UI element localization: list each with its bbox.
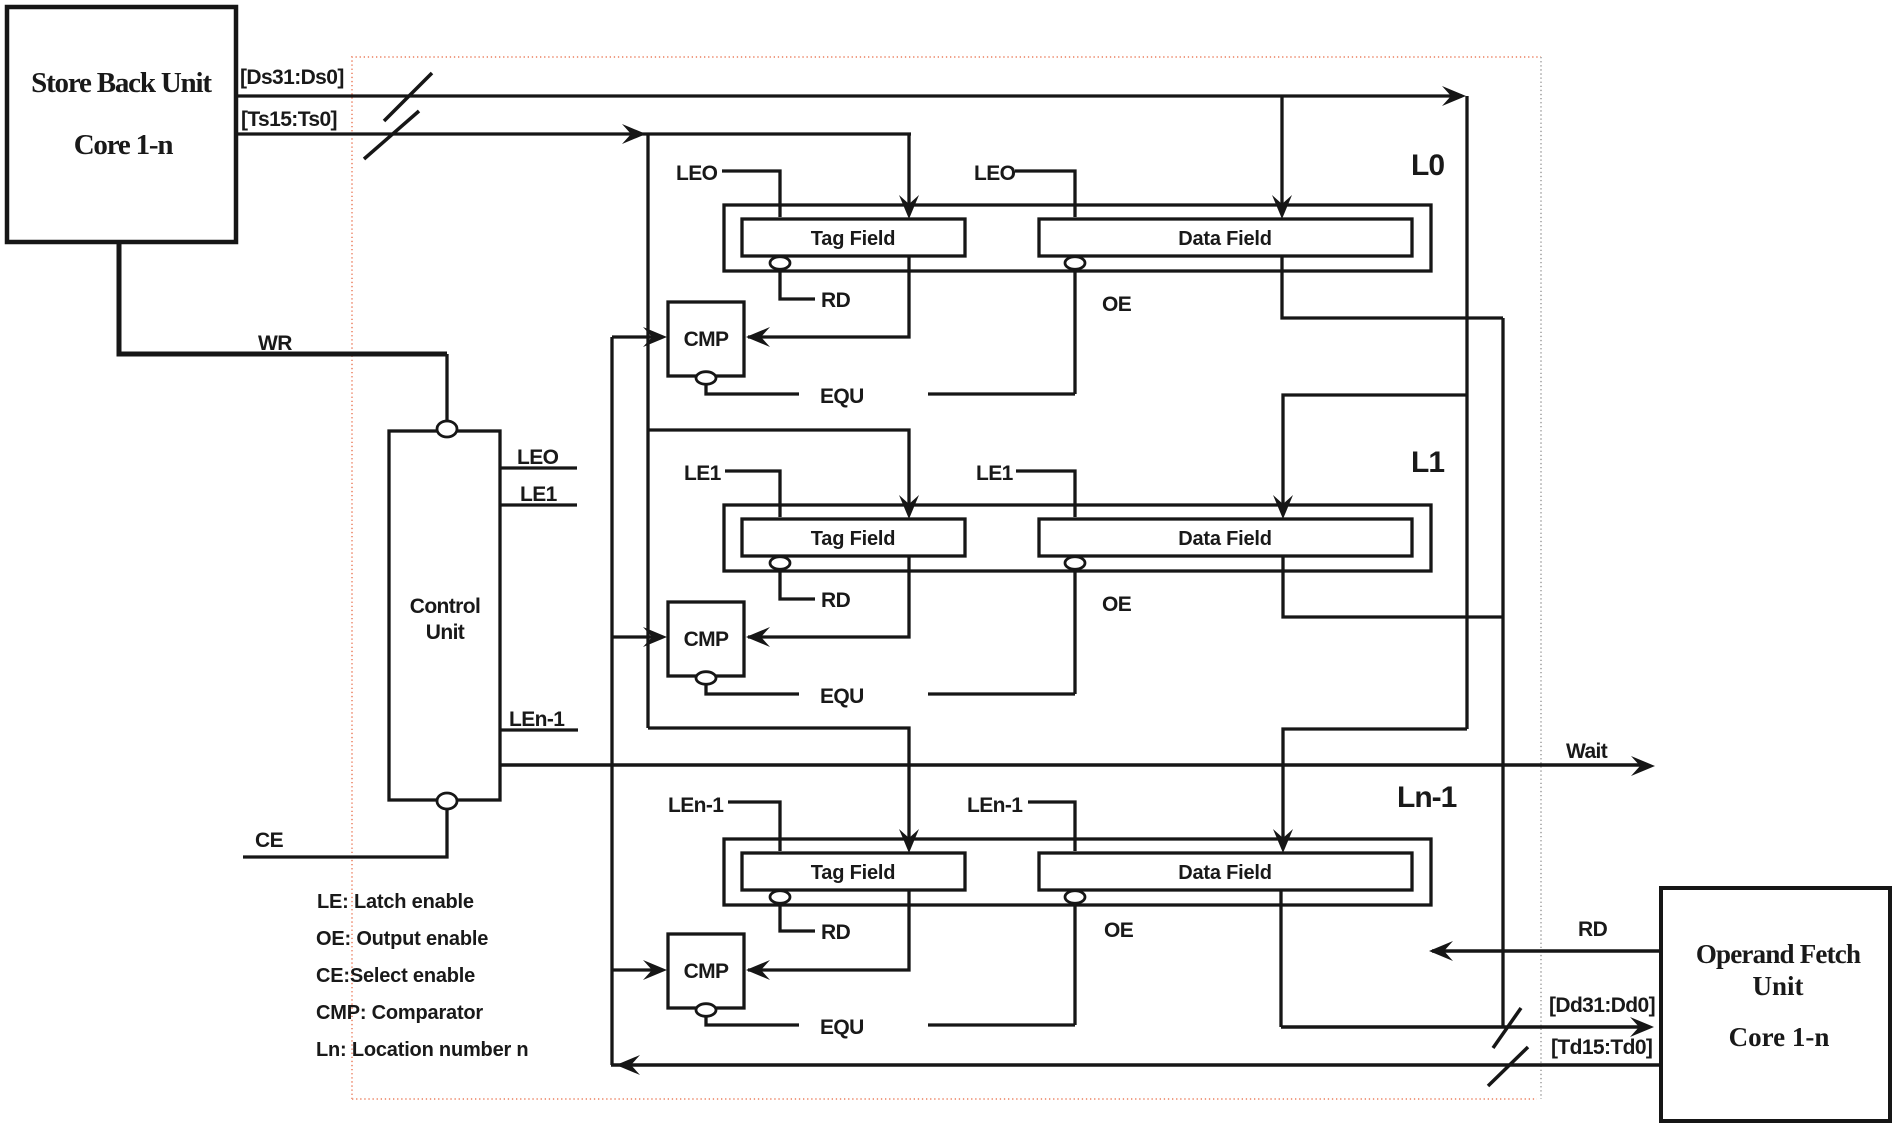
- arrowhead Dd into Operand Fetch Unit: [1630, 1017, 1654, 1037]
- svg-text:LEO: LEO: [676, 162, 718, 185]
- svg-text:RD: RD: [821, 289, 851, 312]
- svg-text:CMP: Comparator: CMP: Comparator: [316, 1002, 483, 1024]
- svg-text:Wait: Wait: [1566, 740, 1608, 763]
- L0 outer latch box: [724, 205, 1431, 271]
- comparator CMP L0: [668, 302, 744, 376]
- wire tag write drop into L0: [907, 134, 910, 212]
- Store Back Unit box: [7, 7, 236, 242]
- wire WR drop to Control Unit: [445, 354, 448, 421]
- wire LEO into Tag Field L0: [722, 171, 780, 217]
- arrowhead Wait: [1631, 756, 1655, 776]
- svg-text:LE1: LE1: [520, 483, 558, 506]
- Operand Fetch Unit box: [1661, 888, 1890, 1121]
- wire stored tag to CMP L1: [748, 556, 909, 637]
- bubble OE under Data Field L1: [1065, 557, 1085, 570]
- svg-text:Ln-1: Ln-1: [1397, 781, 1457, 814]
- svg-text:CMP: CMP: [684, 960, 729, 983]
- svg-text:Tag Field: Tag Field: [811, 228, 896, 250]
- svg-text:Tag Field: Tag Field: [811, 862, 896, 884]
- wire LEn-1 into Data Field Ln-1: [1028, 802, 1075, 851]
- Ln-1 outer latch box: [724, 839, 1431, 905]
- svg-text:[Td15:Td0]: [Td15:Td0]: [1551, 1036, 1652, 1059]
- wire LEO into Data Field L0: [1015, 171, 1075, 217]
- wire data read out of L0 to read rail: [1282, 256, 1503, 318]
- wire CE input: [243, 809, 447, 857]
- svg-text:Unit: Unit: [426, 621, 465, 644]
- arrowhead Td (left, at rail): [616, 1055, 640, 1075]
- wire EQU Ln-1 (left segment): [706, 1017, 799, 1025]
- bus slash on Td: [1488, 1047, 1528, 1086]
- dashed region border (gray dotted, right edge): [1540, 57, 1542, 1099]
- arrowhead tag write L0: [899, 195, 919, 219]
- wire data write drop into L0: [1280, 96, 1283, 212]
- wire WR from Store Back Unit: [119, 242, 447, 354]
- svg-text:OE: Output enable: OE: Output enable: [316, 928, 488, 950]
- svg-text:Ln: Location number n: Ln: Location number n: [316, 1039, 528, 1061]
- Data Field L1 box: [1039, 519, 1412, 556]
- wire data-read rail (to Dd bus): [1501, 318, 1504, 1027]
- Data Field L0 box: [1039, 219, 1412, 256]
- svg-text:Core 1-n: Core 1-n: [1729, 1022, 1830, 1052]
- wire stored tag to CMP Ln-1: [748, 890, 909, 970]
- arrowhead data write L1: [1273, 495, 1293, 519]
- arrowhead compare tag into CMP L1: [643, 627, 667, 647]
- svg-text:RD: RD: [1578, 918, 1608, 941]
- Data Field Ln-1 box: [1039, 853, 1412, 890]
- bubble EQU output CMP L1: [696, 672, 716, 685]
- svg-text:[Ts15:Ts0]: [Ts15:Ts0]: [241, 108, 337, 131]
- wire compare tag into CMP L1: [612, 635, 660, 638]
- svg-text:LEn-1: LEn-1: [967, 794, 1023, 817]
- comparator CMP L1: [668, 602, 744, 676]
- svg-text:LE: Latch enable: LE: Latch enable: [317, 891, 474, 913]
- Tag Field L0 box: [742, 219, 965, 256]
- svg-text:Control: Control: [410, 595, 480, 618]
- wire [Dd31:Dd0] line: [1281, 1025, 1642, 1029]
- inverter bubble bottom of Control Unit: [437, 793, 457, 809]
- wire data read out of Ln-1 to Dd: [1279, 890, 1282, 1027]
- bubble OE under Data Field L0: [1065, 257, 1085, 270]
- wire RD stub Ln-1: [780, 904, 815, 931]
- Tag Field L1 box: [742, 519, 965, 556]
- wire LEn-1 output stub: [500, 728, 578, 731]
- arrowhead data write Ln-1: [1273, 829, 1293, 853]
- wire LEO output stub: [500, 466, 577, 469]
- svg-text:EQU: EQU: [820, 385, 864, 408]
- arrowhead Ts into tag rail: [622, 124, 646, 144]
- arrowhead tag write L1: [899, 495, 919, 519]
- wire EQU Ln-1 (right segment to OE): [928, 1023, 1075, 1026]
- Tag Field Ln-1 box: [742, 853, 965, 890]
- svg-text:WR: WR: [258, 332, 292, 355]
- wire compare tag into CMP Ln-1: [612, 968, 660, 971]
- svg-text:CE:Select enable: CE:Select enable: [316, 965, 475, 987]
- wire tag-write rail (from Ts bus down): [646, 134, 649, 728]
- wire EQU L0 (left segment): [706, 385, 799, 394]
- bubble OE under Data Field Ln-1: [1065, 891, 1085, 904]
- bus slash on Ts: [364, 111, 419, 159]
- svg-text:CMP: CMP: [684, 328, 729, 351]
- svg-text:LE1: LE1: [976, 462, 1014, 485]
- svg-text:Store Back Unit: Store Back Unit: [31, 67, 212, 99]
- wire compare tag into CMP L0: [612, 335, 660, 338]
- wire LE1 output stub: [500, 503, 577, 506]
- wire LE1 into Data Field L1: [1016, 471, 1075, 517]
- svg-text:OE: OE: [1102, 293, 1132, 316]
- svg-text:Data Field: Data Field: [1178, 228, 1272, 250]
- wire LE1 into Tag Field L1: [725, 471, 780, 517]
- wire tag-compare rail (from Td bus up to CMP inputs): [610, 337, 613, 1065]
- wire [Td15:Td0] line: [611, 1063, 1663, 1067]
- dashed region border (salmon dotted, left/top/bottom): [352, 57, 1541, 1099]
- arrowhead compare tag into CMP Ln-1: [643, 960, 667, 980]
- L1 outer latch box: [724, 505, 1431, 571]
- svg-text:RD: RD: [821, 589, 851, 612]
- wire OE down to EQU L1: [1073, 570, 1076, 694]
- bus slash on Ds: [384, 73, 432, 121]
- Control Unit box: [389, 431, 500, 800]
- wire RD stub L0: [780, 270, 815, 299]
- arrowhead tag write Ln-1: [899, 829, 919, 853]
- wire tag write branch for Ln-1: [648, 728, 909, 846]
- svg-text:LEn-1: LEn-1: [509, 708, 565, 731]
- svg-text:LEO: LEO: [517, 446, 559, 469]
- svg-text:LEn-1: LEn-1: [668, 794, 724, 817]
- inverter bubble top of Control Unit: [437, 421, 457, 437]
- bubble RD under Tag Field L0: [770, 257, 790, 270]
- wire LEn-1 into Tag Field Ln-1: [728, 802, 780, 851]
- wire EQU L1 (left segment): [706, 685, 799, 694]
- arrowhead Ds into right rail: [1442, 86, 1466, 106]
- wire tag write branch for L1: [648, 430, 909, 512]
- wire EQU L0 (right segment to OE): [928, 392, 1075, 395]
- svg-text:L0: L0: [1411, 149, 1444, 182]
- arrowhead compare tag into CMP L0: [643, 327, 667, 347]
- svg-text:[Dd31:Dd0]: [Dd31:Dd0]: [1549, 994, 1655, 1017]
- svg-text:Data Field: Data Field: [1178, 862, 1272, 884]
- wire data write branch for Ln-1: [1283, 729, 1467, 846]
- bubble RD under Tag Field L1: [770, 557, 790, 570]
- wire RD stub L1: [780, 570, 815, 599]
- svg-text:Data Field: Data Field: [1178, 528, 1272, 550]
- arrowhead stored tag into CMP Ln-1: [746, 960, 770, 980]
- svg-text:EQU: EQU: [820, 685, 864, 708]
- arrowhead stored tag into CMP L0: [746, 327, 770, 347]
- wire data-write rail (from Ds bus down right side): [1465, 96, 1468, 729]
- wire RD from Operand Fetch Unit: [1432, 949, 1663, 953]
- svg-text:Core 1-n: Core 1-n: [74, 129, 174, 161]
- wire data read out of L1 to read rail: [1283, 556, 1503, 617]
- svg-text:LE1: LE1: [684, 462, 722, 485]
- svg-text:Operand Fetch: Operand Fetch: [1696, 939, 1861, 969]
- wire [Ts15:Ts0] bus: [236, 132, 911, 135]
- svg-text:CE: CE: [255, 829, 284, 852]
- wire EQU L1 (right segment to OE): [928, 692, 1075, 695]
- svg-text:L1: L1: [1411, 446, 1444, 479]
- svg-text:OE: OE: [1102, 593, 1132, 616]
- svg-text:[Ds31:Ds0]: [Ds31:Ds0]: [240, 66, 344, 89]
- arrowhead stored tag into CMP L1: [746, 627, 770, 647]
- bubble EQU output CMP L0: [696, 372, 716, 385]
- wire OE down to EQU L0: [1073, 270, 1076, 394]
- svg-text:Unit: Unit: [1752, 971, 1803, 1001]
- bus slash on Dd: [1493, 1008, 1521, 1048]
- svg-text:OE: OE: [1104, 919, 1134, 942]
- svg-text:RD: RD: [821, 921, 851, 944]
- svg-text:EQU: EQU: [820, 1016, 864, 1039]
- wire data write branch for L1: [1283, 395, 1467, 512]
- svg-text:LEO: LEO: [974, 162, 1016, 185]
- wire OE down to EQU Ln-1: [1073, 904, 1076, 1025]
- svg-text:Tag Field: Tag Field: [811, 528, 896, 550]
- arrowhead RD: [1429, 941, 1453, 961]
- wire [Ds31:Ds0] bus: [236, 94, 1462, 97]
- arrowhead data write L0: [1272, 195, 1292, 219]
- svg-text:CMP: CMP: [684, 628, 729, 651]
- bubble EQU output CMP Ln-1: [696, 1004, 716, 1017]
- comparator CMP Ln-1: [668, 934, 744, 1008]
- bubble RD under Tag Field Ln-1: [770, 891, 790, 904]
- wire stored tag to CMP L0: [748, 256, 909, 337]
- wire Wait line: [500, 763, 1640, 767]
